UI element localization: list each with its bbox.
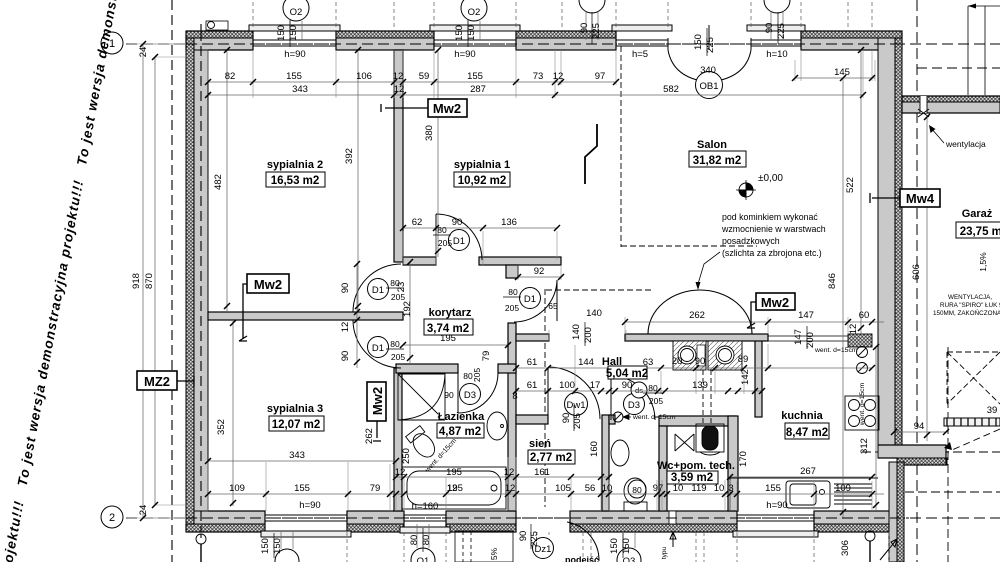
rotated dim texts left/top	[131, 23, 787, 516]
axis B horizontal bottom	[126, 517, 1000, 519]
svg-text:h=90: h=90	[766, 500, 787, 511]
window O2 syp3 frame	[265, 511, 347, 524]
svg-text:582: 582	[663, 84, 679, 95]
svg-text:went. d=15cm: went. d=15cm	[632, 414, 676, 421]
svg-text:606: 606	[911, 264, 922, 280]
label Mw4	[900, 189, 940, 207]
svg-text:80: 80	[390, 339, 400, 349]
svg-text:150: 150	[454, 25, 465, 41]
tag O1 bottom	[411, 548, 435, 562]
svg-text:D1: D1	[453, 236, 465, 247]
svg-text:82: 82	[225, 71, 236, 82]
svg-text:(szlichta za zbrojona etc.): (szlichta za zbrojona etc.)	[722, 248, 822, 258]
bottom wall pier B4	[570, 524, 737, 532]
svg-text:147: 147	[798, 310, 814, 321]
svg-text:Łazienka: Łazienka	[438, 411, 485, 423]
svg-text:12: 12	[395, 467, 406, 478]
svg-text:139: 139	[692, 380, 708, 391]
left dim 918 line	[142, 44, 144, 518]
svg-text:92: 92	[534, 266, 545, 277]
svg-text:205: 205	[391, 352, 405, 362]
tag D1 salon	[520, 288, 541, 309]
svg-text:150: 150	[260, 538, 271, 554]
svg-text:170: 170	[738, 451, 749, 467]
top dim row 1 line	[208, 81, 616, 83]
bottom wall pier B5 + SE corner	[814, 524, 903, 532]
syp3 dim 352 line	[232, 320, 234, 506]
svg-text:16,53 m2: 16,53 m2	[271, 175, 320, 187]
tag top salon left	[579, 0, 605, 13]
wall korytarz/salon + lazienka east	[508, 323, 516, 511]
svg-text:150: 150	[693, 34, 704, 50]
entry steps	[455, 531, 513, 562]
kitchen hob	[845, 396, 879, 430]
garage dashed X top edge	[947, 351, 1000, 353]
section mark zigzag	[585, 124, 597, 184]
svg-text:10: 10	[673, 483, 684, 494]
svg-text:79: 79	[370, 483, 381, 494]
tag 80 wc toilet	[628, 480, 646, 498]
svg-text:Salon: Salon	[697, 139, 727, 151]
chimney block 2 salon	[708, 341, 742, 370]
door D1 syp3 arc	[353, 320, 401, 368]
tag D3 lazienka	[460, 384, 481, 405]
label leaders	[177, 104, 900, 441]
chimney block 1 salon	[673, 341, 706, 370]
svg-text:sypialnia 3: sypialnia 3	[267, 403, 323, 415]
shower lazienka	[398, 374, 445, 420]
salon dim 846 line	[842, 78, 844, 518]
svg-text:89: 89	[738, 354, 749, 365]
svg-text:Mw2: Mw2	[254, 277, 282, 292]
svg-text:97: 97	[595, 71, 606, 82]
wall salon/hall west stub	[516, 334, 549, 341]
svg-text:O2: O2	[290, 7, 303, 18]
window salon h=10 sill	[747, 25, 805, 31]
vent slot in pier B4	[669, 511, 676, 524]
axis A horizontal	[126, 43, 1000, 45]
svg-text:kuchnia: kuchnia	[781, 410, 823, 422]
top wall pier P1	[186, 31, 253, 38]
svg-text:12,07 m2: 12,07 m2	[272, 419, 321, 431]
door D3 lazienka arc	[458, 373, 498, 413]
svg-text:RURA "SPIRO" ŁUK 90st.: RURA "SPIRO" ŁUK 90st.	[940, 302, 1000, 309]
svg-text:MZ2: MZ2	[144, 374, 170, 389]
svg-text:205: 205	[438, 238, 452, 248]
rotated dim texts middle	[216, 177, 988, 560]
svg-text:O3: O3	[623, 556, 636, 562]
garage 94 line	[894, 431, 946, 433]
svg-text:147: 147	[793, 329, 804, 345]
wall salon/hall band under arch	[625, 334, 768, 341]
svg-text:O2: O2	[468, 7, 481, 18]
svg-text:podejść: podejść	[565, 555, 599, 562]
axis vertical through left wall	[200, 24, 202, 538]
svg-text:142: 142	[740, 369, 751, 385]
svg-text:2,77 m2: 2,77 m2	[530, 452, 572, 464]
svg-text:225: 225	[591, 23, 602, 39]
door leaf labels 80/205 fractions	[390, 225, 663, 406]
wentylacja spiro note	[933, 294, 1000, 317]
svg-text:WENTYLACJA,: WENTYLACJA,	[948, 294, 992, 301]
svg-text:ds: ds	[635, 386, 643, 395]
svg-text:119: 119	[691, 483, 706, 494]
svg-text:korytarz: korytarz	[429, 307, 472, 319]
dashed line garage door zone	[905, 491, 1000, 493]
tag OB1	[696, 72, 723, 99]
window salon h=10 frame	[751, 38, 801, 50]
washbasin lazienka	[487, 412, 507, 440]
svg-text:Mw4: Mw4	[906, 191, 935, 206]
svg-text:h=5: h=5	[632, 49, 648, 60]
svg-text:380: 380	[424, 125, 435, 141]
window O2 syp1 frame	[434, 38, 516, 50]
svg-text:94: 94	[914, 421, 925, 432]
hall row line 1	[516, 367, 872, 369]
rect top-left vent	[206, 21, 228, 30]
svg-text:90: 90	[695, 356, 706, 367]
vent bowtie pomtech	[675, 434, 694, 451]
top wall pier P4 + NE corner	[801, 31, 902, 38]
svg-text:140: 140	[571, 324, 582, 340]
window O2 syp2 sill	[249, 25, 340, 31]
top dim row 2 line	[208, 94, 863, 96]
svg-text:1,5%: 1,5%	[978, 252, 988, 272]
svg-text:80: 80	[632, 485, 642, 495]
svg-text:90: 90	[579, 23, 590, 34]
svg-text:60: 60	[859, 310, 870, 321]
svg-text:97: 97	[653, 483, 664, 494]
svg-text:312: 312	[859, 438, 870, 454]
wall lazienka north	[396, 364, 458, 373]
wall korytarz west / lazienka west	[394, 368, 402, 511]
dashed diagonal to jog corner	[952, 429, 1000, 450]
wall kitchen/hall	[755, 339, 762, 417]
tag O2 top syp2	[283, 0, 309, 21]
svg-text:90: 90	[340, 283, 351, 294]
hall row line 2	[516, 390, 762, 392]
door Dw1 sien/hall leaf+arc	[548, 367, 600, 419]
tag D3 wc	[624, 394, 645, 415]
door Dz1 entry arc	[567, 522, 599, 561]
svg-text:sień: sień	[529, 438, 551, 450]
svg-text:3: 3	[728, 483, 733, 494]
svg-text:20: 20	[672, 356, 683, 367]
svg-text:Dw1: Dw1	[566, 400, 585, 411]
svg-text:155: 155	[467, 71, 483, 82]
wall lazienka north right stub	[498, 364, 516, 373]
svg-text:522: 522	[845, 177, 856, 193]
syp2 dim 392 line	[357, 50, 359, 312]
garage 606 line	[926, 117, 928, 441]
svg-text:10: 10	[602, 483, 613, 494]
svg-text:typu: typu	[661, 546, 668, 559]
tag ds wc	[631, 382, 647, 398]
svg-text:205: 205	[649, 396, 663, 406]
window O2 syp3 sill	[261, 531, 351, 537]
svg-text:846: 846	[827, 273, 838, 289]
svg-text:D3: D3	[464, 390, 476, 401]
svg-text:23,75 m2: 23,75 m2	[960, 226, 1000, 238]
svg-text:h=90: h=90	[284, 49, 305, 60]
korytarz 195 line	[403, 344, 508, 346]
svg-text:90: 90	[622, 380, 633, 391]
svg-text:306: 306	[840, 540, 851, 556]
SE jog wall	[878, 445, 946, 458]
wall syp1/syp2	[394, 50, 403, 262]
svg-text:12: 12	[504, 467, 515, 478]
downpipe bottom right	[865, 531, 875, 541]
garage front wall vent slot	[920, 96, 927, 113]
svg-text:wzmocnienie w warstwach: wzmocnienie w warstwach	[721, 224, 826, 234]
wall hall south stub	[609, 415, 615, 424]
hatched pier kitchen north	[848, 334, 872, 347]
svg-text:D3: D3	[628, 400, 640, 411]
svg-text:posadzkowych: posadzkowych	[722, 236, 780, 246]
svg-text:80: 80	[648, 383, 658, 393]
svg-text:80: 80	[409, 535, 420, 546]
svg-text:65: 65	[548, 301, 558, 311]
door D1 syp1 leaf+arc	[436, 214, 482, 260]
svg-text:90: 90	[452, 217, 463, 228]
svg-text:150: 150	[276, 25, 287, 41]
furnace pomtech	[696, 424, 724, 452]
wall hall/sien west stub	[516, 415, 548, 424]
svg-text:24: 24	[138, 505, 149, 516]
left wall gray	[194, 38, 208, 524]
garage dashed X diagonal 2	[947, 352, 1000, 404]
svg-text:5,04 m2: 5,04 m2	[606, 368, 648, 380]
garage floor grate	[944, 418, 1000, 426]
door D3 wc arc	[611, 376, 655, 420]
tick marks	[140, 41, 949, 521]
svg-text:482: 482	[213, 174, 224, 190]
svg-text:10,92 m2: 10,92 m2	[458, 175, 507, 187]
washbasin wc	[611, 440, 629, 466]
svg-text:39: 39	[987, 405, 998, 416]
svg-text:109: 109	[835, 483, 851, 494]
garage front wall	[902, 96, 1000, 102]
dashed zone salon chimney horizontal	[621, 245, 757, 247]
svg-text:h=160: h=160	[412, 501, 439, 512]
grid circle 2	[101, 506, 123, 528]
wall syp1 south left	[403, 257, 436, 265]
downpipe bottom left	[196, 534, 206, 544]
svg-text:392: 392	[344, 148, 355, 164]
dim 92 line	[518, 276, 561, 278]
korytarz dim 192 line	[409, 262, 411, 364]
window O2 syp2 frame	[253, 38, 336, 50]
svg-text:8: 8	[512, 391, 517, 402]
top margin dashed verticals	[253, 2, 889, 562]
svg-text:90: 90	[764, 23, 775, 34]
svg-text:343: 343	[289, 450, 305, 461]
svg-text:870: 870	[144, 273, 155, 289]
bottom wall pier B2	[347, 524, 404, 532]
tag D1 syp2	[368, 279, 389, 300]
svg-text:155: 155	[286, 71, 302, 82]
svg-text:205: 205	[505, 303, 519, 313]
svg-text:140: 140	[586, 308, 602, 319]
salon dim 522 line	[860, 50, 862, 334]
svg-text:12: 12	[848, 324, 859, 335]
door D1 korytarz/salon leaf+arc	[514, 280, 557, 322]
tag Dw1	[565, 393, 588, 416]
left dim 870 line	[154, 57, 156, 505]
svg-text:100: 100	[559, 380, 575, 391]
svg-text:24: 24	[138, 47, 149, 58]
svg-text:80: 80	[508, 287, 518, 297]
axis jog wall SE	[862, 451, 1000, 453]
svg-text:17: 17	[590, 380, 601, 391]
svg-text:340: 340	[700, 65, 716, 76]
svg-text:8,47 m2: 8,47 m2	[786, 427, 828, 439]
svg-text:12: 12	[553, 71, 564, 82]
tag O2 top syp1	[461, 0, 487, 21]
dim extension lines	[126, 44, 875, 518]
svg-text:sypialnia 1: sypialnia 1	[454, 159, 510, 171]
svg-text:12: 12	[394, 84, 405, 95]
svg-text:106: 106	[356, 71, 372, 82]
garage dashed X left edge	[946, 352, 948, 404]
svg-text:h=10: h=10	[766, 49, 787, 60]
arch 262 salon/hall	[648, 290, 752, 334]
svg-text:Mw2: Mw2	[433, 101, 461, 116]
svg-text:h=90: h=90	[454, 49, 475, 60]
top wall pier P3	[516, 31, 616, 38]
window O1 lazienka frame	[404, 511, 446, 524]
garage slope arrow	[880, 539, 897, 560]
svg-text:56: 56	[585, 483, 596, 494]
svg-text:90: 90	[561, 413, 572, 424]
entry door Dz1 opening jambs	[516, 511, 570, 532]
wall syp1 south right	[479, 257, 561, 265]
svg-text:5%: 5%	[489, 547, 499, 560]
garage dashed X diagonal 1	[947, 352, 1000, 404]
svg-text:sypialnia 2: sypialnia 2	[267, 159, 323, 171]
wall syp2/syp3	[208, 312, 403, 320]
svg-text:195: 195	[446, 467, 462, 478]
kitchen 267 line	[730, 476, 872, 478]
axis overlays on walls	[186, 31, 1000, 532]
svg-text:105: 105	[555, 483, 571, 494]
window O3 kitchen frame	[737, 511, 814, 524]
tag D1 syp1	[449, 230, 470, 251]
svg-text:61: 61	[527, 380, 538, 391]
svg-text:D1: D1	[372, 285, 384, 296]
svg-text:12: 12	[340, 322, 351, 333]
svg-text:205: 205	[472, 368, 482, 382]
svg-text:145: 145	[834, 67, 850, 78]
wall pomtech north	[659, 416, 736, 426]
svg-text:went. d=15cm: went. d=15cm	[859, 382, 866, 426]
svg-text:2: 2	[109, 512, 115, 524]
toilet lazienka	[406, 426, 439, 462]
toilet wc	[624, 478, 646, 504]
survey point salon	[739, 183, 753, 197]
svg-text:D1: D1	[524, 294, 536, 305]
svg-text:352: 352	[216, 419, 227, 435]
svg-text:O1: O1	[417, 556, 430, 562]
axis vertical left margin	[171, 0, 173, 562]
flue dashed route	[703, 370, 711, 424]
tag O3 bottom	[617, 548, 641, 562]
svg-text:155: 155	[765, 483, 781, 494]
dashed vertical right of garage corner	[947, 347, 949, 562]
bathtub lazienka	[402, 467, 506, 509]
window O3 kitchen sill	[733, 531, 818, 537]
syp1 dim 380 line	[437, 50, 439, 257]
tag D1 syp3	[368, 337, 389, 358]
svg-text:OB1: OB1	[699, 81, 718, 92]
svg-text:Mw2: Mw2	[370, 387, 385, 415]
window salon h=5 frame	[616, 38, 668, 50]
top dim 145 line	[795, 77, 875, 79]
label MZ2	[137, 371, 177, 390]
dashed zone hall vertical	[544, 289, 546, 507]
svg-text:12: 12	[393, 71, 404, 82]
svg-text:10: 10	[714, 483, 725, 494]
svg-text:4,87 m2: 4,87 m2	[439, 426, 481, 438]
fraction lines rotated labels	[274, 12, 807, 558]
svg-text:59: 59	[419, 71, 430, 82]
svg-text:79: 79	[481, 351, 492, 362]
kitchen 312 line	[875, 347, 877, 511]
svg-text:pod kominkiem wykonać: pod kominkiem wykonać	[722, 212, 818, 222]
label Mw2 top	[428, 99, 467, 117]
svg-text:205: 205	[391, 292, 405, 302]
svg-text:160: 160	[589, 441, 600, 457]
bottom rows line 1	[396, 476, 609, 478]
svg-text:109: 109	[229, 483, 245, 494]
east wall hatch	[895, 38, 902, 446]
svg-text:Mw2: Mw2	[761, 295, 789, 310]
svg-text:267: 267	[800, 466, 816, 477]
svg-text:287: 287	[470, 84, 486, 95]
svg-text:155: 155	[294, 483, 310, 494]
svg-text:h=90: h=90	[299, 500, 320, 511]
svg-text:went. d=15cm: went. d=15cm	[814, 347, 858, 354]
svg-text:195: 195	[447, 483, 463, 494]
kitchen top row line	[625, 321, 884, 323]
axis garage horizontal y68	[917, 67, 1000, 69]
wall stub salon NW	[506, 265, 518, 278]
window salon h=5 sill	[612, 25, 672, 31]
svg-text:3,59 m2: 3,59 m2	[671, 472, 713, 484]
svg-text:Garaż: Garaż	[962, 208, 993, 220]
svg-text:262: 262	[689, 310, 705, 321]
svg-text:150MM, ZAKOŃCZONA WYW.: 150MM, ZAKOŃCZONA WYW.	[933, 308, 1000, 317]
left wall hatch	[186, 31, 194, 532]
label Mw2 rotated lazienka	[367, 382, 386, 421]
wall pomtech east	[728, 416, 738, 511]
svg-text:61: 61	[527, 357, 538, 368]
grid circle 1	[101, 32, 123, 54]
svg-text:73: 73	[533, 71, 544, 82]
svg-text:80: 80	[437, 225, 447, 235]
leader lines from window tags	[281, 12, 783, 549]
syp1 door dim line	[403, 227, 557, 229]
svg-text:wentylacja: wentylacja	[945, 139, 986, 149]
syp2 dim 482 line	[226, 50, 228, 312]
kitchen vent circles	[857, 347, 868, 358]
salon note	[721, 212, 826, 258]
svg-text:90: 90	[518, 531, 529, 542]
svg-text:150: 150	[609, 538, 620, 554]
svg-text:31,82 m2: 31,82 m2	[693, 155, 742, 167]
svg-text:62: 62	[412, 217, 423, 228]
svg-text:136: 136	[501, 217, 517, 228]
